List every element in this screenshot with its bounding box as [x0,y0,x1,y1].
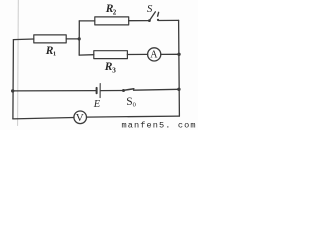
wire ammeter to right bus [161,53,179,55]
wire R3 row left segment [79,54,94,56]
label R3 [104,61,116,75]
wire R1 row left segment [13,38,33,41]
node A-row right junction [177,53,180,56]
switch S0 (closed) [122,89,134,92]
svg-text:2: 2 [113,8,117,16]
wire switch S to top-right corner [158,19,178,21]
resistor R2 [95,17,129,25]
svg-text:0: 0 [133,101,136,108]
switch S [148,12,159,22]
wire parallel left bus vertical [78,21,80,55]
node E-row right junction [177,88,180,91]
label E (battery) [93,99,101,110]
label S (switch) [147,3,153,15]
svg-text:V: V [76,112,84,124]
label R1 [45,45,56,58]
svg-text:manfen5. com: manfen5. com [122,121,197,130]
wire R2 to switch S [129,20,150,22]
label S0 [126,96,136,108]
label V (voltmeter) [76,112,84,124]
wire bottom row right segment [87,116,180,117]
svg-text:1: 1 [53,50,56,57]
wire bottom row left segment [13,118,74,119]
watermark manfen5.com [122,121,197,131]
resistor R3 [94,51,128,59]
svg-text:S: S [147,3,153,15]
wire right vertical bus [178,20,181,116]
label R2 [105,3,117,16]
battery E [97,84,101,98]
svg-text:E: E [93,99,101,110]
resistor R1 [34,35,66,43]
wire E row: left bus to battery [13,90,96,92]
label A (ammeter) [150,50,158,61]
wire R1 to parallel junction [66,38,79,40]
wire R3 to ammeter [127,53,147,55]
svg-text:A: A [150,50,158,61]
wire battery to switch S0 [101,90,124,92]
node E-row left junction [11,89,14,92]
node parallel split junction [78,37,81,40]
wire left vertical bus [12,40,15,119]
wire R2 row left segment [79,20,95,22]
voltmeter V [74,111,87,124]
svg-text:3: 3 [112,66,116,75]
ammeter A [148,48,161,61]
wire S0 to right bus [134,88,179,91]
